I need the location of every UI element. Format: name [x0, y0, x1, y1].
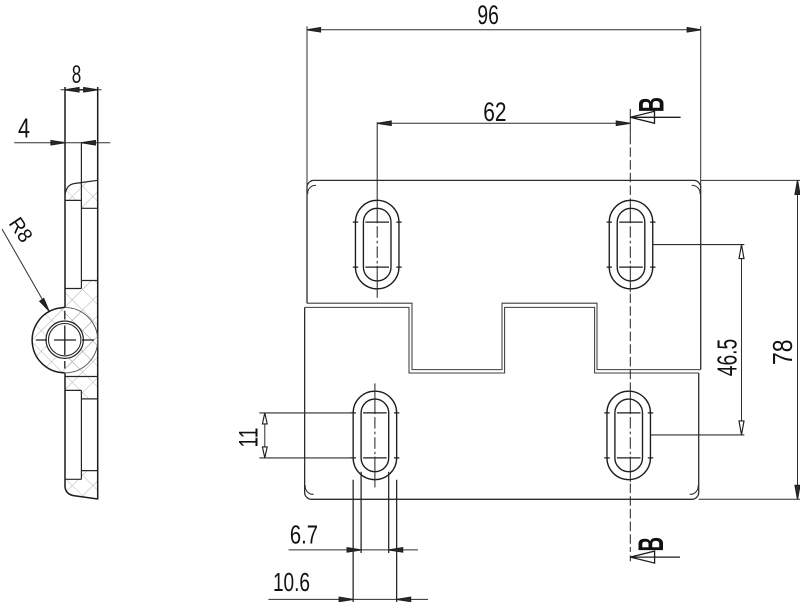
- svg-text:62: 62: [483, 97, 506, 127]
- svg-text:96: 96: [477, 0, 499, 30]
- svg-text:46.5: 46.5: [712, 339, 743, 377]
- svg-text:78: 78: [767, 339, 798, 365]
- svg-text:8: 8: [72, 61, 82, 89]
- svg-text:4: 4: [18, 113, 30, 144]
- svg-text:6.7: 6.7: [290, 520, 318, 550]
- svg-text:B: B: [632, 97, 671, 112]
- svg-text:10.6: 10.6: [273, 567, 310, 597]
- svg-text:B: B: [632, 537, 671, 552]
- svg-text:11: 11: [234, 428, 264, 448]
